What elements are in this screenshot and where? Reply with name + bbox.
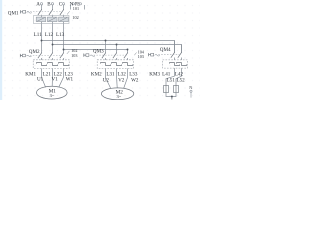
KM1 contact pole1 — [37, 63, 47, 66]
svg-text:L11: L11 — [34, 32, 42, 38]
leader mark 104 — [134, 53, 136, 56]
KM2 contact pole3 — [123, 63, 133, 66]
fuse FU2 — [174, 85, 179, 92]
svg-text:QM1: QM1 — [8, 10, 19, 16]
wire QM4 pole1 — [174, 41, 176, 61]
breaker QM3 linkage — [91, 54, 127, 56]
junction L11/branch1 — [41, 40, 43, 42]
svg-text:QM2: QM2 — [29, 49, 40, 55]
output drop — [171, 97, 173, 100]
wire phase C drop — [63, 5, 65, 50]
wire QM3 pole2 — [116, 45, 118, 61]
svg-text:L12: L12 — [45, 32, 54, 38]
contactor KM1 box — [33, 60, 69, 69]
svg-text:103: 103 — [71, 53, 77, 58]
junction L13/branch2 — [127, 49, 129, 51]
junction L11/branch2 — [105, 40, 107, 42]
svg-text:L21: L21 — [43, 71, 52, 77]
svg-text:103: 103 — [138, 54, 144, 59]
node B terminal — [51, 3, 53, 5]
bus L12 — [53, 45, 182, 53]
QM1 thermal element pole A — [36, 17, 46, 22]
KM3 contact pole1 — [170, 63, 180, 66]
junction dots — [41, 40, 173, 98]
breaker QM2 handle — [20, 54, 22, 57]
page margin band — [0, 0, 2, 100]
svg-text:KM2: KM2 — [91, 71, 102, 77]
wire N stub — [70, 5, 72, 10]
svg-text:L31: L31 — [106, 71, 115, 77]
breaker QM1 linkage — [27, 11, 63, 13]
breaker QM1 trip-unit box — [34, 16, 70, 24]
node N terminal — [72, 3, 74, 5]
wire V1 — [51, 76, 53, 86]
node A terminal — [40, 3, 42, 5]
wire QM3 pole1 — [105, 41, 107, 61]
motor M2 — [101, 88, 133, 100]
svg-text:3~: 3~ — [117, 94, 122, 99]
svg-text:V1: V1 — [52, 76, 59, 82]
KM1 contact pole3 — [59, 63, 69, 66]
KM1 contact pole2 — [48, 63, 58, 66]
svg-text:QM3: QM3 — [93, 48, 104, 54]
bus L11 — [42, 41, 175, 53]
wires below fuses — [166, 93, 176, 97]
svg-text:L51: L51 — [167, 77, 176, 83]
wire QM4 pole2 — [181, 45, 183, 61]
svg-text:102: 102 — [72, 15, 78, 20]
contactor KM3 box — [163, 60, 188, 68]
wires below KM2 — [105, 69, 107, 77]
wire QM2 pole3 — [63, 50, 65, 61]
svg-text:U2: U2 — [103, 77, 110, 83]
wire QM3 pole3 — [127, 50, 129, 61]
svg-text:QM4: QM4 — [160, 47, 171, 53]
breaker QM1 handle — [21, 10, 23, 13]
svg-text:C: C — [59, 1, 63, 7]
svg-text:KM3: KM3 — [149, 71, 160, 77]
wire phase B drop — [52, 5, 54, 45]
breaker QM3 handle — [84, 54, 86, 57]
KM2 contact pole1 — [101, 63, 111, 66]
svg-text:L32: L32 — [118, 71, 127, 77]
junction L12/branch1 — [52, 44, 54, 46]
breaker QM2 linkage — [27, 55, 63, 57]
wire jog to fuse FU2 — [176, 76, 182, 85]
junction L13/branch1 — [63, 49, 65, 51]
KM2 contact pole2 — [112, 63, 122, 66]
wire W2 — [124, 76, 128, 89]
svg-text:3~: 3~ — [50, 93, 55, 98]
breaker QM4 handle — [149, 53, 151, 56]
fuse FU1 — [164, 85, 169, 92]
wire QM2 pole2 — [52, 45, 54, 61]
bus L13 — [64, 49, 128, 51]
breaker QM2 pole contacts — [38, 53, 42, 59]
breaker QM1 pole contacts — [38, 9, 42, 15]
junction L12/branch2 — [116, 44, 118, 46]
wire U1 — [42, 76, 46, 87]
svg-text:L13: L13 — [56, 32, 65, 38]
breaker QM4 pole contacts — [171, 52, 175, 58]
wire QM2 pole1 — [41, 41, 43, 61]
leader mark 102 — [67, 51, 70, 54]
wire W1 — [59, 76, 64, 87]
QM1 thermal element pole B — [47, 17, 57, 22]
svg-text:V2: V2 — [118, 77, 125, 83]
svg-text:KM1: KM1 — [25, 71, 36, 77]
wire PE stub — [84, 5, 86, 10]
KM3 contact pole2 — [177, 63, 187, 66]
wires below KM3 — [174, 68, 176, 76]
junction fuse output — [171, 96, 173, 98]
node PE terminal — [79, 3, 81, 5]
wires below KM1 — [41, 69, 43, 77]
node N lamp terminal — [190, 90, 192, 92]
wire U2 — [106, 76, 111, 89]
svg-text:N: N — [189, 85, 192, 90]
contactor KM2 box — [97, 60, 133, 69]
svg-text:L33: L33 — [129, 71, 138, 77]
wire phase A drop — [41, 5, 43, 41]
leader mark 101 — [67, 11, 70, 14]
svg-text:A: A — [36, 1, 40, 7]
QM1 thermal element pole C — [59, 17, 69, 22]
motor M1 — [37, 86, 68, 99]
breaker QM4 linkage — [155, 54, 181, 56]
svg-text:U1: U1 — [37, 76, 44, 82]
svg-text:W2: W2 — [131, 77, 139, 83]
wire V2 — [116, 76, 119, 88]
labels — [8, 1, 193, 99]
svg-text:W1: W1 — [66, 76, 74, 82]
wire jog to fuse FU1 — [166, 76, 175, 85]
svg-text:101: 101 — [73, 6, 79, 11]
breaker QM3 pole contacts — [102, 53, 106, 59]
svg-text:L52: L52 — [177, 77, 186, 83]
node C terminal — [62, 3, 64, 5]
svg-text:B: B — [47, 1, 51, 7]
